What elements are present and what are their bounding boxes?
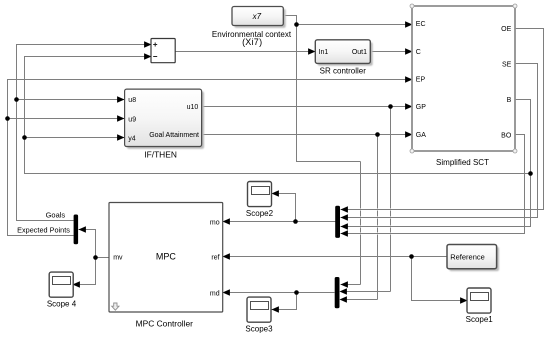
svg-text:y4: y4 bbox=[128, 135, 136, 142]
svg-text:GA: GA bbox=[416, 132, 426, 139]
svg-text:mo: mo bbox=[210, 220, 220, 227]
svg-text:EC: EC bbox=[416, 21, 426, 28]
svg-text:Out1: Out1 bbox=[352, 49, 367, 56]
svg-text:Goal Attainment: Goal Attainment bbox=[149, 132, 199, 139]
svg-text:x7: x7 bbox=[252, 12, 262, 21]
svg-text:Scope2: Scope2 bbox=[246, 209, 274, 218]
svg-text:Scope1: Scope1 bbox=[466, 315, 494, 324]
svg-text:SR controller: SR controller bbox=[320, 66, 367, 75]
svg-text:GP: GP bbox=[416, 104, 426, 111]
svg-text:u9: u9 bbox=[128, 116, 136, 123]
svg-text:EP: EP bbox=[416, 77, 426, 84]
svg-text:u10: u10 bbox=[187, 104, 199, 111]
svg-text:mv: mv bbox=[113, 254, 123, 261]
svg-text:In1: In1 bbox=[319, 49, 329, 56]
svg-text:OE: OE bbox=[501, 26, 511, 33]
svg-text:SE: SE bbox=[502, 61, 512, 68]
svg-text:BO: BO bbox=[501, 132, 512, 139]
svg-text:Simplified SCT: Simplified SCT bbox=[436, 158, 489, 167]
svg-text:md: md bbox=[210, 290, 220, 297]
svg-text:(Xi7): (Xi7) bbox=[242, 37, 262, 47]
svg-text:Expected Points: Expected Points bbox=[17, 226, 70, 235]
svg-text:ref: ref bbox=[211, 255, 219, 262]
svg-text:Goals: Goals bbox=[46, 211, 66, 220]
svg-text:C: C bbox=[416, 49, 421, 56]
svg-text:Reference: Reference bbox=[450, 252, 485, 261]
svg-text:u8: u8 bbox=[128, 97, 136, 104]
svg-text:MPC: MPC bbox=[156, 252, 177, 262]
svg-text:MPC Controller: MPC Controller bbox=[136, 318, 193, 328]
svg-text:IF/THEN: IF/THEN bbox=[144, 150, 177, 160]
svg-text:Scope3: Scope3 bbox=[245, 325, 273, 334]
svg-text:Scope 4: Scope 4 bbox=[47, 300, 77, 309]
svg-text:B: B bbox=[507, 97, 512, 104]
